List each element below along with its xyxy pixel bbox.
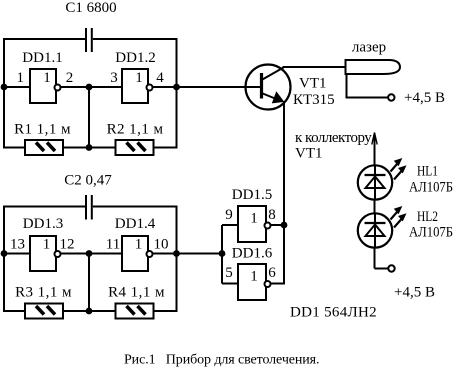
LED HL1	[358, 158, 407, 200]
svg-text:1: 1	[17, 70, 25, 86]
svg-text:1: 1	[135, 237, 143, 253]
svg-text:DD1.6: DD1.6	[232, 246, 273, 262]
svg-text:C2 0,47: C2 0,47	[64, 173, 112, 189]
wire DD1.5 input	[222, 224, 238, 226]
inverter DD1.2	[122, 69, 153, 103]
wire loop2 top left	[3, 206, 85, 208]
wire loop2 left vertical	[3, 206, 5, 313]
svg-text:DD1.4: DD1.4	[115, 216, 156, 232]
svg-text:КТ315: КТ315	[293, 92, 335, 108]
wire LED chain bottom to terminal	[375, 268, 389, 270]
emitter arrowhead	[272, 91, 285, 103]
wire DD1.3 output to DD1.4	[58, 253, 122, 255]
svg-text:R3 1,1 м: R3 1,1 м	[15, 285, 72, 301]
wire loop2 top right	[93, 206, 178, 208]
svg-text:5: 5	[225, 265, 233, 281]
inverter DD1.3	[30, 236, 61, 271]
wire loop2 right vertical	[176, 206, 178, 313]
node pin8 junction	[281, 222, 288, 229]
node junction to DD1.5/DD1.6	[219, 250, 226, 257]
capacitor C2	[86, 195, 92, 220]
svg-text:1: 1	[250, 269, 258, 285]
svg-text:DD1.3: DD1.3	[23, 216, 63, 232]
svg-text:VT1: VT1	[295, 146, 323, 162]
svg-text:9: 9	[225, 207, 233, 223]
svg-text:R2 1,1 м: R2 1,1 м	[107, 122, 164, 138]
svg-text:Рис.1 Прибор для светолечения: Рис.1 Прибор для светолечения.	[124, 353, 319, 368]
svg-text:к коллектору: к коллектору	[295, 130, 372, 146]
svg-text:C1 6800: C1 6800	[65, 0, 116, 16]
svg-text:HL1: HL1	[417, 164, 438, 180]
svg-text:6: 6	[268, 265, 276, 281]
svg-text:DD1 564ЛН2: DD1 564ЛН2	[290, 305, 377, 321]
svg-text:1: 1	[250, 211, 258, 227]
inverter DD1.4	[122, 236, 153, 271]
svg-text:DD1.5: DD1.5	[232, 187, 272, 203]
svg-text:АЛ107Б: АЛ107Б	[409, 225, 453, 241]
wire middle vertical loop1	[88, 87, 90, 148]
wire loop1 right vertical	[176, 38, 178, 149]
svg-text:1: 1	[43, 237, 51, 253]
wire loop1 bottom	[3, 147, 178, 149]
wire DD1.4 output to DD1.5/DD1.6	[150, 253, 222, 255]
wire DD1.1 input	[3, 86, 30, 88]
inverter DD1.6	[238, 264, 271, 300]
wire loop1 left vertical	[3, 38, 5, 149]
svg-text:8: 8	[268, 207, 276, 223]
resistor R3	[25, 304, 63, 319]
wire vertical input split	[221, 225, 223, 284]
wire loop2 bottom	[3, 310, 178, 312]
capacitor C1	[86, 28, 92, 52]
laser body	[346, 60, 401, 74]
svg-text:R1 1,1 м: R1 1,1 м	[14, 122, 71, 138]
svg-text:2: 2	[66, 70, 74, 86]
wire DD1.2 output to VT1 base	[150, 86, 261, 88]
svg-text:1: 1	[43, 70, 51, 86]
svg-text:+4,5 В: +4,5 В	[404, 90, 445, 106]
svg-text:VT1: VT1	[299, 76, 327, 92]
svg-text:лазер: лазер	[352, 40, 386, 56]
terminal +4.5V bottom	[388, 265, 394, 271]
wire collector to laser	[283, 66, 347, 68]
resistor R4	[116, 304, 154, 319]
svg-text:DD1.2: DD1.2	[115, 50, 155, 66]
wire loop1 top left	[3, 38, 85, 40]
resistor R1	[25, 140, 63, 155]
svg-text:12: 12	[60, 237, 75, 253]
wire DD1.6 input	[222, 283, 238, 285]
wire laser to +4.5V	[347, 74, 388, 98]
LED HL2	[358, 206, 407, 248]
svg-text:10: 10	[154, 237, 169, 253]
svg-text:АЛ107Б: АЛ107Б	[409, 180, 453, 196]
inverter DD1.5	[238, 206, 271, 242]
wire emitter vertical	[283, 101, 285, 285]
svg-text:4: 4	[156, 70, 164, 86]
wire loop1 top right	[93, 38, 178, 40]
terminal +4.5V top	[388, 94, 394, 100]
wire DD1.3 input	[3, 253, 30, 255]
junction dots loop1	[1, 84, 180, 151]
svg-text:13: 13	[10, 237, 25, 253]
svg-text:DD1.1: DD1.1	[22, 50, 62, 66]
wire middle vertical loop2	[88, 254, 90, 312]
resistor R2	[116, 140, 154, 155]
svg-text:3: 3	[110, 70, 118, 86]
wire DD1.6 output	[266, 283, 285, 285]
transistor Q1 VT1	[246, 65, 291, 110]
junction dots loop2	[1, 250, 180, 314]
wire LED chain vertical with arrow	[372, 133, 377, 269]
svg-text:11: 11	[106, 237, 120, 253]
svg-text:+4,5 В: +4,5 В	[394, 285, 435, 301]
svg-text:HL2: HL2	[417, 209, 438, 225]
svg-text:1: 1	[135, 70, 143, 86]
wire DD1.5 output	[266, 224, 285, 226]
inverter DD1.1	[30, 69, 61, 103]
svg-text:R4 1,1 м: R4 1,1 м	[108, 285, 165, 301]
wire DD1.1 output to DD1.2	[58, 86, 122, 88]
